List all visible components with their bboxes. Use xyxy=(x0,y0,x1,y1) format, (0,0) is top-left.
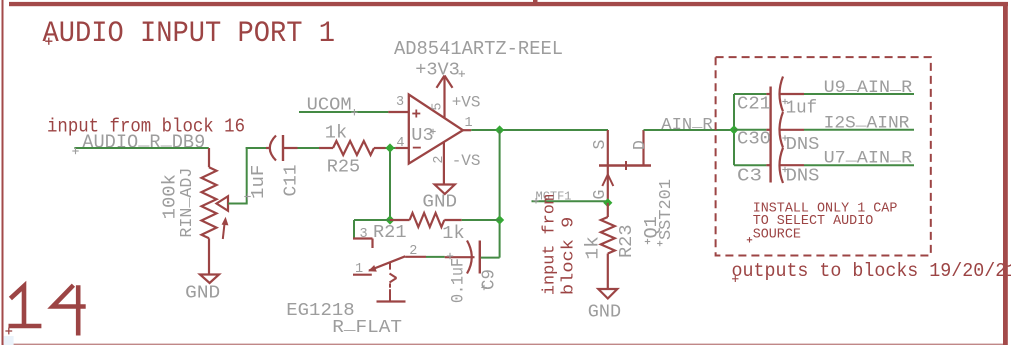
svg-text:DNS: DNS xyxy=(786,165,820,186)
svg-text:U9_AIN_R: U9_AIN_R xyxy=(824,75,913,98)
svg-text:outputs to blocks 19/20/21: outputs to blocks 19/20/21 xyxy=(732,260,1011,282)
svg-text:1k: 1k xyxy=(325,122,347,143)
svg-text:G: G xyxy=(590,190,609,200)
svg-text:U7_AIN_R: U7_AIN_R xyxy=(824,146,913,169)
svg-text:RIN_ADJ: RIN_ADJ xyxy=(175,168,197,238)
svg-text:S: S xyxy=(590,140,609,150)
svg-text:C11: C11 xyxy=(281,165,302,197)
svg-text:U3: U3 xyxy=(411,125,433,146)
svg-text:+3V3: +3V3 xyxy=(415,60,460,81)
svg-text:C21: C21 xyxy=(737,94,771,115)
svg-text:1uf: 1uf xyxy=(786,98,818,119)
svg-text:GND: GND xyxy=(588,301,621,322)
svg-text:1k: 1k xyxy=(583,236,604,260)
svg-text:+VS: +VS xyxy=(452,94,481,112)
svg-text:GND: GND xyxy=(185,282,220,303)
svg-text:SOURCE: SOURCE xyxy=(753,228,801,243)
svg-text:3: 3 xyxy=(360,227,368,242)
svg-text:C3: C3 xyxy=(737,166,762,187)
svg-text:SST201: SST201 xyxy=(657,179,676,240)
svg-text:D: D xyxy=(630,140,649,150)
svg-text:-VS: -VS xyxy=(452,152,481,170)
svg-text:R25: R25 xyxy=(327,157,360,178)
svg-text:4: 4 xyxy=(396,136,404,151)
svg-text:R21: R21 xyxy=(373,222,406,243)
svg-text:block 9: block 9 xyxy=(560,217,579,296)
svg-text:R23: R23 xyxy=(616,225,637,259)
svg-text:C30: C30 xyxy=(737,129,771,150)
svg-text:R_FLAT: R_FLAT xyxy=(332,314,402,338)
svg-text:C9: C9 xyxy=(479,269,500,290)
svg-text:3: 3 xyxy=(396,95,404,110)
svg-text:AIN_R: AIN_R xyxy=(661,113,712,135)
svg-text:AUDIO_R_DB9: AUDIO_R_DB9 xyxy=(82,128,205,153)
svg-text:DNS: DNS xyxy=(786,134,820,155)
svg-text:AD8541ARTZ-REEL: AD8541ARTZ-REEL xyxy=(394,38,563,60)
svg-text:1uF: 1uF xyxy=(248,165,269,199)
svg-text:5: 5 xyxy=(431,102,446,110)
svg-text:GND: GND xyxy=(422,192,457,213)
svg-text:AUDIO INPUT PORT 1: AUDIO INPUT PORT 1 xyxy=(43,17,336,51)
svg-text:0.1uF: 0.1uF xyxy=(449,258,469,303)
svg-text:1: 1 xyxy=(465,116,473,131)
svg-text:1: 1 xyxy=(355,262,363,277)
svg-text:1k: 1k xyxy=(442,223,464,244)
svg-text:I2S_AINR: I2S_AINR xyxy=(824,110,910,133)
svg-text:input from: input from xyxy=(541,194,560,295)
